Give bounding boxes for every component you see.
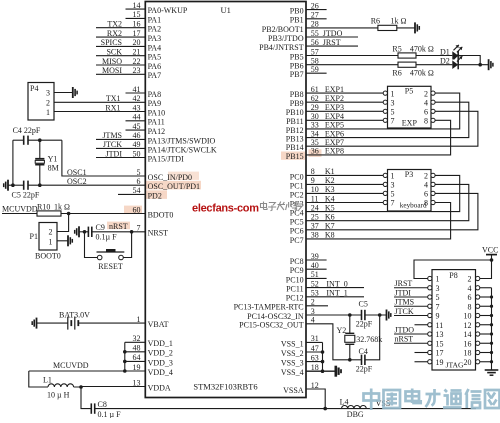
svg-text:elecfans-com: elecfans-com [192, 203, 259, 215]
svg-text:PC7: PC7 [290, 236, 304, 245]
svg-text:Y1: Y1 [48, 155, 58, 164]
svg-text:RX1: RX1 [105, 103, 120, 112]
junction VCC rail [490, 258, 494, 262]
svg-text:PC14-OSC32_IN: PC14-OSC32_IN [247, 312, 304, 321]
P5 pin 4 circle [431, 100, 435, 104]
svg-text:0.1µ F: 0.1µ F [96, 233, 118, 242]
junction ground / C4b branch [378, 313, 382, 317]
wire battery to U1 VBAT [78, 322, 145, 324]
svg-text:8: 8 [468, 302, 472, 311]
wire net INT_1 from U1 PC12 [306, 296, 364, 298]
svg-text:10: 10 [464, 312, 472, 321]
wire P1 pin1 to ground [57, 240, 68, 242]
svg-text:L4: L4 [340, 397, 349, 406]
svg-text:RX2: RX2 [107, 29, 122, 38]
svg-text:PB9: PB9 [290, 99, 304, 108]
capacitor C5 (32k) [361, 310, 363, 320]
svg-text:JTMS: JTMS [102, 131, 122, 140]
P5 pin 3 circle [383, 100, 387, 104]
P8 pin 6 circle [476, 295, 480, 299]
resistor R10 [37, 211, 61, 216]
svg-text:5: 5 [436, 293, 440, 302]
wire net K8 U1 to P3 pin8 [306, 203, 451, 239]
P5 pin 2 circle [431, 91, 435, 95]
svg-text:PA1: PA1 [148, 15, 162, 24]
svg-text:470k Ω: 470k Ω [410, 69, 434, 78]
wire pin45 PA12 stub [126, 129, 146, 131]
crystal Y1 [39, 140, 41, 158]
wire pin40 PC9 stub [306, 268, 327, 270]
svg-text:JTCK: JTCK [103, 140, 122, 149]
P8 pin 16 circle [476, 341, 480, 345]
svg-text:C4 22pF: C4 22pF [13, 126, 41, 135]
svg-text:JTDI: JTDI [106, 149, 123, 158]
wire net K6 U1 to P3 pin4 [306, 184, 469, 220]
svg-text:keyboard: keyboard [400, 201, 427, 209]
junction L1 / C8 [79, 385, 83, 389]
U1 left pin numbers [133, 1, 141, 387]
wire MCUVDD to R10 [2, 213, 37, 215]
svg-text:VSS_4: VSS_4 [281, 368, 304, 377]
svg-text:39: 39 [311, 252, 319, 261]
wire net EXP1 U1 to P5 pin 1 [306, 92, 383, 94]
IC U1 STM32F103RBT6 body [145, 2, 306, 398]
svg-text:63: 63 [311, 353, 319, 362]
wire net EXP2 U1 to P5 pin 3 [306, 101, 383, 103]
svg-text:7: 7 [391, 117, 395, 126]
svg-text:PA4: PA4 [148, 43, 162, 52]
ground at VSS_4 [334, 366, 337, 377]
svg-text:TX1: TX1 [106, 94, 121, 103]
svg-text:BAT3.0V: BAT3.0V [59, 311, 90, 320]
svg-text:INT_0: INT_0 [326, 279, 347, 288]
svg-text:MCUVDD: MCUVDD [53, 361, 89, 370]
LED D1 [452, 51, 458, 60]
wire P8 pin 4 to ground bus [480, 287, 492, 289]
svg-text:VDD_4: VDD_4 [148, 368, 173, 377]
svg-text:PA3: PA3 [148, 34, 162, 43]
junction ground bus pin 14 [490, 332, 493, 335]
svg-text:7: 7 [436, 302, 440, 311]
wire VSS_3 stub [306, 361, 323, 363]
svg-text:PC0: PC0 [290, 172, 304, 181]
highlight pin 36 [309, 149, 322, 157]
wire net JRST from U1 PB4 [306, 45, 358, 47]
svg-text:19: 19 [436, 358, 444, 367]
svg-text:PC8: PC8 [290, 257, 304, 266]
svg-text:PB10: PB10 [286, 108, 304, 117]
resistor R6 470k [398, 62, 416, 67]
svg-text:52: 52 [311, 279, 319, 288]
svg-text:PB12: PB12 [286, 126, 304, 135]
wire D2 cathode to ground [458, 64, 488, 66]
svg-text:VSS_1: VSS_1 [281, 339, 304, 348]
wire pin14 PA0-WKUP stub [126, 8, 146, 10]
svg-text:JTMS: JTMS [395, 298, 415, 307]
wire net JRST to P8 [394, 287, 428, 289]
svg-text:16: 16 [133, 20, 141, 29]
wire ground to C5 [8, 184, 24, 186]
svg-text:PA12: PA12 [148, 127, 166, 136]
svg-text:P4: P4 [30, 84, 38, 93]
power VCC symbol [491, 255, 493, 260]
wire net nRST to P8 [394, 342, 428, 344]
connector P1 body [39, 223, 57, 251]
wire net EXP5 U1 to P5 pin2 [306, 93, 460, 129]
wire net TX2 to U1 [96, 27, 145, 29]
svg-text:K3: K3 [325, 185, 335, 194]
svg-text:R6: R6 [371, 16, 380, 25]
wire OSC32_OUT net [306, 324, 350, 360]
wire pin51 PC10 stub [306, 277, 327, 279]
wire OSC1 net: C4 to corner to U1 OSC_IN [28, 139, 62, 141]
svg-text:NRST: NRST [148, 229, 169, 238]
wire pin39 PC8 stub [306, 259, 327, 261]
svg-text:PA2: PA2 [148, 25, 162, 34]
wire battery minus [37, 322, 68, 324]
svg-text:4: 4 [424, 181, 428, 190]
svg-text:OSC_IN/PD0: OSC_IN/PD0 [148, 173, 192, 182]
wire PB2/BOOT1 to R6 [306, 27, 378, 29]
junction D1/D2 cathodes [478, 63, 482, 67]
P3 pin 8 circle [431, 200, 435, 204]
wire C4b to ground branch [365, 315, 380, 360]
junction ground bus pin 8 [490, 305, 493, 308]
wire net JTDI to U1 [96, 157, 145, 159]
svg-text:VDD_2: VDD_2 [148, 349, 173, 358]
svg-text:6: 6 [468, 293, 472, 302]
svg-text:EXP: EXP [402, 118, 418, 127]
svg-text:PC11: PC11 [286, 285, 304, 294]
junction Y1 top / OSC1 [38, 138, 42, 142]
svg-text:BOOT0: BOOT0 [35, 252, 61, 261]
svg-text:3: 3 [311, 307, 315, 316]
svg-text:PC13-TAMPER-RTC: PC13-TAMPER-RTC [234, 303, 304, 312]
svg-text:D1: D1 [440, 48, 450, 57]
svg-text:VCC: VCC [482, 246, 498, 255]
junction Y2 bottom [348, 358, 352, 362]
svg-text:PA8: PA8 [148, 90, 162, 99]
P8 pin 3 circle [428, 286, 432, 290]
svg-text:VSS_3: VSS_3 [281, 359, 304, 368]
svg-text:6: 6 [424, 190, 428, 199]
U1 right pin name labels [234, 7, 304, 395]
P3 pin 5 circle [383, 191, 387, 195]
wire PB5 to R5 [306, 55, 398, 57]
wire P8 pin 19 stub [415, 361, 428, 363]
capacitor C9 [87, 227, 89, 237]
svg-text:VDD_1: VDD_1 [148, 339, 173, 348]
wire net EXP6 U1 to P5 pin4 [306, 102, 469, 137]
svg-text:PA7: PA7 [148, 71, 162, 80]
wire pin59 PB7 stub [306, 72, 327, 74]
P8 pin 18 circle [476, 350, 480, 354]
svg-text:PB7: PB7 [290, 70, 304, 79]
svg-text:15: 15 [436, 339, 444, 348]
wire VSS_2 stub [306, 351, 323, 353]
junction VSS bus pin63 [321, 360, 325, 364]
P8 pin 8 circle [476, 304, 480, 308]
svg-text:PB4/JNTRST: PB4/JNTRST [259, 43, 304, 52]
junction VSS bus pin18 [321, 369, 325, 373]
junction VDD bus pin48 [123, 350, 127, 354]
wire reset switch right leg [123, 232, 131, 258]
svg-text:8: 8 [424, 117, 428, 126]
svg-text:U1: U1 [221, 5, 231, 15]
svg-text:1: 1 [391, 89, 395, 98]
svg-text:32.768k: 32.768k [356, 335, 382, 344]
junction NRST / reset switch [130, 230, 134, 234]
wire P8 ground bus [491, 288, 493, 370]
P8 pin 1 circle [428, 276, 432, 280]
svg-text:PA14/JTCK/SWCLK: PA14/JTCK/SWCLK [148, 145, 217, 154]
svg-text:1: 1 [391, 172, 395, 181]
capacitor C5 [23, 181, 25, 190]
svg-text:8: 8 [424, 199, 428, 208]
wire pin54 PD2 stub [118, 193, 145, 195]
svg-text:0.1 µ F: 0.1 µ F [98, 410, 122, 418]
P5 pin 5 circle [383, 109, 387, 113]
wire VDD bus vertical [124, 342, 126, 371]
svg-text:PA0-WKUP: PA0-WKUP [148, 6, 188, 15]
wire pin26 PB0 stub [306, 9, 327, 11]
svg-text:R5: R5 [392, 44, 401, 53]
svg-text:8M: 8M [48, 164, 59, 173]
svg-text:PC2: PC2 [290, 190, 304, 199]
svg-text:PA9: PA9 [148, 99, 162, 108]
P3 pin 3 circle [383, 182, 387, 186]
svg-text:PC12: PC12 [286, 294, 304, 303]
wire VDD_3 stub [125, 360, 146, 362]
svg-text:PD2: PD2 [148, 191, 162, 200]
svg-text:17: 17 [436, 349, 444, 358]
svg-text:C4: C4 [359, 347, 368, 356]
inductor L4 [342, 406, 367, 409]
U1 right pin numbers [311, 1, 319, 389]
svg-text:13: 13 [133, 378, 141, 387]
wire D1 cathode to join [458, 56, 480, 65]
P5 pin 1 circle [383, 91, 387, 95]
svg-text:10 µ H: 10 µ H [47, 391, 70, 400]
wire net JTCK to U1 [96, 147, 145, 149]
svg-text:24: 24 [311, 203, 319, 212]
junction ground bus pin 20 [490, 360, 493, 363]
wire net K7 U1 to P3 pin6 [306, 193, 478, 229]
svg-text:2: 2 [468, 275, 472, 284]
junction OSC32_IN / Y2 [348, 313, 352, 317]
wire reset switch left leg [85, 232, 98, 258]
wire net JTCK to P8 [394, 315, 428, 317]
wire P1 pin2 riser [57, 214, 69, 232]
svg-text:14: 14 [464, 330, 472, 339]
svg-text:40: 40 [311, 261, 319, 270]
svg-text:K4: K4 [325, 194, 335, 203]
P8 pin 4 circle [476, 286, 480, 290]
wire net EXP7 U1 to P5 pin6 [306, 111, 478, 146]
battery BAT3.0V symbol [67, 317, 69, 330]
wire net EXP4 U1 to P5 pin 7 [306, 119, 383, 121]
wire net JTDI to P8 [394, 296, 428, 298]
P8 pin 10 circle [476, 313, 480, 317]
highlight OSC_IN/PD0 tail [168, 172, 199, 180]
svg-text:47: 47 [311, 344, 319, 353]
wire net K2 U1 to P3 pin 3 [306, 183, 383, 185]
svg-text:EXP2: EXP2 [325, 94, 344, 103]
watermark chinese gray text [261, 202, 303, 211]
wire C4b line [350, 359, 362, 361]
pushbutton RESET [97, 255, 102, 260]
P3 pin 6 circle [431, 191, 435, 195]
ground at crystal caps [7, 180, 9, 191]
wire pin2 PC13 stub [306, 305, 328, 307]
wire net SPICS to U1 [96, 45, 145, 47]
svg-text:19: 19 [133, 363, 141, 372]
wire P8 pin 18 to ground bus [480, 352, 492, 354]
wire C8 riser [81, 387, 91, 409]
svg-text:11: 11 [436, 321, 444, 330]
svg-text:MOSI: MOSI [102, 66, 122, 75]
wire net K3 U1 to P3 pin 5 [306, 192, 383, 194]
svg-text:K2: K2 [325, 176, 335, 185]
svg-text:PB5: PB5 [290, 52, 304, 61]
P8 pin 15 circle [428, 341, 432, 345]
wire pin15 PA1 stub [126, 17, 146, 19]
svg-text:MCUVDD: MCUVDD [2, 205, 38, 214]
wire net JTMS to U1 [96, 138, 145, 140]
svg-text:12: 12 [311, 381, 319, 390]
P8 pin 5 circle [428, 295, 432, 299]
wire R10 to U1 BDOT0 [61, 213, 145, 215]
P8 pin 20 circle [476, 360, 480, 364]
ground at P4 pin3 [72, 87, 74, 98]
svg-text:20: 20 [464, 358, 472, 367]
P8 pin 17 circle [428, 350, 432, 354]
svg-text:VSS_2: VSS_2 [281, 349, 304, 358]
P8 pin 9 circle [428, 313, 432, 317]
wire P8 pin 16 to ground bus [480, 342, 492, 344]
wire P8 pin 20 to ground bus [480, 361, 492, 363]
svg-text:PB8: PB8 [290, 90, 304, 99]
svg-text:OSC2: OSC2 [67, 177, 87, 186]
svg-text:P1: P1 [30, 232, 38, 241]
svg-text:K1: K1 [325, 167, 335, 176]
svg-text:C5: C5 [359, 300, 368, 309]
ground at R6 [414, 22, 416, 33]
junction ground bus pin 12 [490, 323, 493, 326]
junction VDD bus pin19 [123, 369, 127, 373]
watermark zhongguo dianli tongxinwang [364, 389, 500, 411]
svg-text:22pF: 22pF [356, 319, 373, 328]
wire VDD_4 / MCUVDD feed [29, 370, 146, 372]
junction ground bus pin 18 [490, 351, 493, 354]
connector P8 JTAG body [432, 270, 476, 370]
connector P3 keyboard body [388, 170, 432, 212]
svg-text:OSC_OUT/PD1: OSC_OUT/PD1 [148, 182, 200, 191]
ground at 32k caps [386, 310, 388, 321]
svg-text:C8: C8 [98, 400, 107, 409]
wire P8 pin2 to VCC [480, 260, 492, 279]
junction VSS bus pin47 [321, 350, 325, 354]
svg-text:PB0: PB0 [290, 7, 304, 16]
svg-text:JTAG: JTAG [446, 360, 464, 369]
wire VDD_2 stub [125, 351, 146, 353]
wire VDD_1 stub [125, 341, 146, 343]
wire P8 pin 17 stub [415, 352, 428, 354]
wire net TX1 P4 pin2 to U1 PA9 [54, 101, 145, 103]
P5 pin 8 circle [431, 118, 435, 122]
junction riser/OSC2 gnd line [11, 183, 15, 187]
wire OSC2 net: C5 to U1 OSC_OUT [28, 184, 145, 186]
svg-text:EXP1: EXP1 [325, 85, 344, 94]
junction C9 / reset switch left [83, 230, 87, 234]
wire net K4 U1 to P3 pin 7 [306, 202, 383, 204]
svg-text:PC1: PC1 [290, 181, 304, 190]
wire net K5 U1 to P3 pin2 [306, 175, 460, 211]
inductor L1 [48, 384, 74, 387]
svg-text:PC10: PC10 [286, 275, 304, 284]
svg-text:PB2/BOOT1: PB2/BOOT1 [262, 25, 304, 34]
svg-text:DBG: DBG [347, 410, 364, 418]
svg-text:STM32F103RBT6: STM32F103RBT6 [193, 382, 257, 392]
svg-text:JTDO: JTDO [395, 325, 415, 334]
wire net JTDO from U1 PB3 [306, 36, 358, 38]
P5 pin 7 circle [383, 118, 387, 122]
svg-text:16: 16 [464, 339, 472, 348]
svg-text:PA5: PA5 [148, 53, 162, 62]
P5 pin 6 circle [431, 109, 435, 113]
P8 pin 19 circle [428, 360, 432, 364]
P8 pin 14 circle [476, 332, 480, 336]
wire net EXP8 U1 to P5 pin8 [306, 120, 451, 155]
wire P8 pin1 to VCC rail [414, 260, 492, 279]
ground at LEDs [488, 59, 490, 70]
wire net INT_0 from U1 PC11 [306, 287, 364, 289]
svg-text:PC5: PC5 [290, 218, 304, 227]
svg-text:JTCK: JTCK [395, 307, 414, 316]
svg-text:PB14: PB14 [286, 143, 304, 152]
wire R5 to D1 [416, 55, 452, 57]
highlight nRST label [107, 222, 130, 230]
svg-text:C5 22pF: C5 22pF [12, 191, 40, 200]
capacitor C8 [90, 403, 92, 413]
svg-text:VBAT: VBAT [148, 320, 169, 329]
wire L1 to U1 VDDA [74, 386, 146, 389]
svg-text:1: 1 [137, 315, 141, 324]
P8 pin 12 circle [476, 323, 480, 327]
svg-text:PC9: PC9 [290, 266, 304, 275]
wire VSS bottom rail [95, 408, 476, 410]
wire net EXP3 U1 to P5 pin 5 [306, 110, 383, 112]
svg-text:PA10: PA10 [148, 108, 166, 117]
wire P8 pin 12 to ground bus [480, 324, 492, 326]
svg-text:2: 2 [424, 172, 428, 181]
svg-text:EXP3: EXP3 [325, 103, 344, 112]
svg-text:PA15/JTDI: PA15/JTDI [148, 154, 184, 163]
svg-text:PC6: PC6 [290, 227, 304, 236]
svg-text:JRST: JRST [323, 38, 341, 47]
svg-text:K5: K5 [325, 203, 335, 212]
wire P8 pin 6 to ground bus [480, 296, 492, 298]
wire ground to C9 [79, 231, 88, 233]
wire NRST net C9 to U1 [92, 231, 146, 233]
svg-text:3: 3 [436, 284, 440, 293]
wire OSC32_IN net to C5b [306, 314, 362, 316]
junction VSSA / bottom rail [323, 407, 327, 411]
wire net RX1 P4 pin1 to U1 PA10 [54, 111, 145, 113]
wire net JTDO to P8 [394, 333, 428, 335]
svg-text:C9: C9 [96, 223, 105, 232]
svg-text:1: 1 [46, 108, 50, 117]
